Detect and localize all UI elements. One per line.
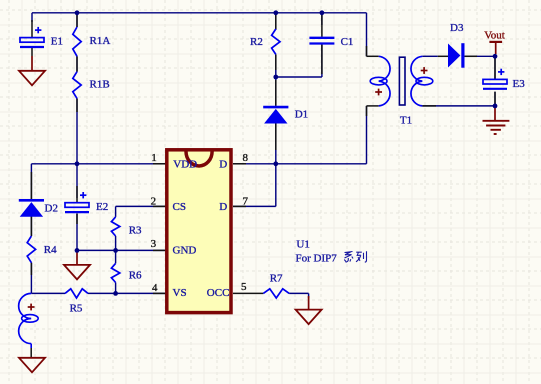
svg-text:Vout: Vout [484,29,505,41]
svg-text:2: 2 [151,195,157,207]
svg-text:VS: VS [173,287,187,299]
svg-text:D1: D1 [295,109,308,121]
svg-text:D: D [219,201,227,213]
svg-text:VDD: VDD [173,159,197,171]
svg-text:4: 4 [152,282,158,294]
svg-text:R2: R2 [250,36,263,48]
svg-text:OCC: OCC [207,287,230,299]
svg-text:T1: T1 [400,114,412,126]
svg-text:1: 1 [151,152,157,164]
svg-text:7: 7 [243,195,249,207]
svg-text:CS: CS [173,201,186,213]
svg-text:D3: D3 [450,22,464,34]
svg-text:R1A: R1A [90,35,111,47]
svg-text:R4: R4 [44,244,57,256]
svg-text:U1: U1 [296,239,309,251]
svg-text:R5: R5 [70,303,83,315]
svg-text:D2: D2 [45,202,58,214]
svg-text:GND: GND [173,244,197,256]
svg-text:R1B: R1B [90,79,110,91]
svg-text:E3: E3 [513,78,526,90]
svg-text:D: D [219,159,227,171]
svg-text:8: 8 [243,152,249,164]
svg-text:E2: E2 [96,201,108,213]
svg-text:E1: E1 [51,36,63,48]
svg-text:5: 5 [241,281,247,293]
svg-text:For DIP7: For DIP7 [296,253,338,265]
svg-text:3: 3 [151,238,157,250]
svg-text:R7: R7 [270,272,283,284]
svg-text:R3: R3 [129,224,142,236]
svg-text:R6: R6 [129,269,142,281]
svg-text:C1: C1 [341,36,354,48]
